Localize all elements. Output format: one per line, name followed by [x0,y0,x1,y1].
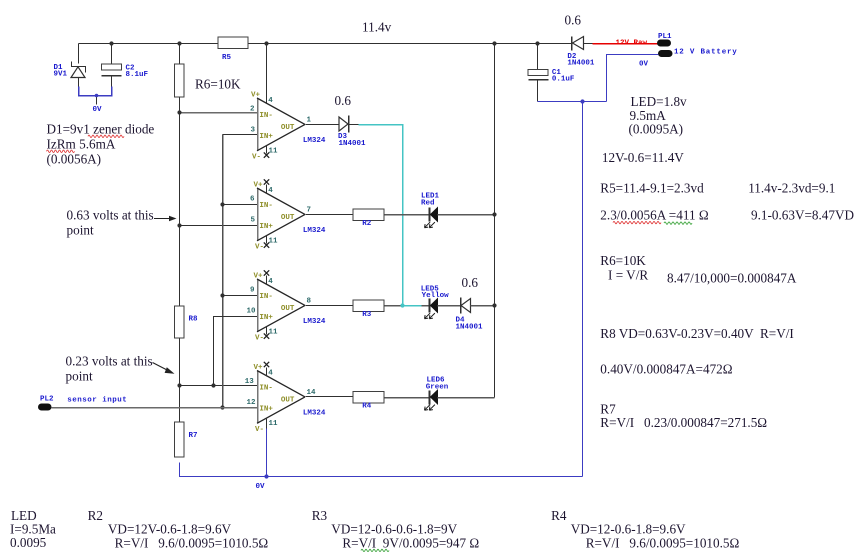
wire: U4 V- pin 11 to 0V (blue) [264,418,268,479]
svg-text:R4: R4 [362,402,372,410]
svg-text:LM324: LM324 [303,410,326,418]
ground stub 0V (top-left) [95,94,99,105]
wire: D4 to LED bus [471,303,497,307]
svg-text:8.1uF: 8.1uF [126,71,149,79]
svg-text:IN+: IN+ [259,223,273,231]
junction: top rail / R6 chain [177,41,181,45]
connector PL2 sensor input [38,404,52,411]
svg-text:0.23 volts at this: 0.23 volts at this [66,354,153,369]
svg-text:V-: V- [255,243,264,251]
svg-text:11: 11 [269,328,279,336]
no-connect X on U1 V- pin 11 [264,146,269,158]
wire: R3 to LED5 [385,305,430,307]
wire: U3 output stub [306,305,354,307]
wire: 0V blue bottom bus [180,463,583,477]
svg-text:IN-: IN- [259,293,273,301]
svg-text:PL2: PL2 [40,396,54,404]
resistor R7 (vertical) [175,422,185,457]
zener diode D1 9V1 [71,44,86,87]
svg-text:IN+: IN+ [259,406,273,414]
wire: U2 output stub [306,214,354,216]
svg-text:7: 7 [307,206,312,214]
svg-text:12: 12 [247,399,257,407]
junction: blue 0V net [580,99,584,103]
junction: top rail / C2 [109,41,113,45]
capacitor C1 0.1uF [528,44,549,102]
svg-text:I = V/R: I = V/R [608,268,648,283]
wire: cyan net tail into LED5 anode [400,303,421,307]
svg-text:OUT: OUT [281,397,295,405]
svg-text:LED=1.8v: LED=1.8v [631,94,688,109]
resistor R2 (horizontal) [353,209,384,221]
svg-text:OUT: OUT [281,124,295,132]
wire: LED5 to D4 [438,305,461,307]
label D4 1N4001 [456,317,484,332]
wire: sensor bus vertical (x=222.5) [222,135,224,408]
svg-text:R8 VD=0.63V-0.23V=0.40V R=V/I: R8 VD=0.63V-0.23V=0.40V R=V/I [600,326,794,341]
op-amp U1B LM324 (#2) [257,188,305,241]
svg-text:4: 4 [268,370,273,378]
junction: top rail / C1 [535,41,539,45]
LED LED6 Green [425,390,438,410]
svg-text:1N4001: 1N4001 [567,60,595,68]
U4 port labels [254,364,295,434]
no-connect X on U3 V- pin 11 [264,327,269,339]
label LED1 Red [421,193,440,208]
svg-text:0.6: 0.6 [462,275,479,290]
svg-text:R2: R2 [362,220,372,228]
U1 pin numbers [250,97,312,155]
no-connect X on U4 V+ pin 4 [264,362,269,377]
svg-text:0V: 0V [639,61,649,69]
svg-text:sensor input: sensor input [67,397,127,405]
resistor R3 (horizontal) [353,300,384,312]
svg-text:Yellow: Yellow [422,292,450,300]
wire: 0.63V node to U2 pin5 IN+ [177,223,257,227]
wire: U3 pin10 IN+ link (x=213) [214,317,258,386]
svg-text:OUT: OUT [281,305,295,313]
svg-text:9V1: 9V1 [54,71,68,79]
svg-text:D1=9v1 zener diode: D1=9v1 zener diode [47,122,155,137]
wire: divider to U1 pin2 IN- [177,110,257,114]
U2 port labels [254,182,295,252]
svg-text:R5: R5 [222,54,232,62]
svg-text:point: point [67,223,94,238]
svg-text:R3: R3 [312,508,328,523]
svg-text:5: 5 [251,217,256,225]
U3 pin numbers [247,278,312,336]
svg-text:PL1: PL1 [658,33,672,41]
svg-text:LM324: LM324 [303,227,326,235]
svg-text:LM324: LM324 [303,137,326,145]
svg-text:12 V Battery: 12 V Battery [674,49,738,57]
svg-text:R2: R2 [88,508,103,523]
wire: R4 to LED6 [385,397,430,399]
svg-text:LM324: LM324 [303,318,326,326]
annotation arrow (0.63 volts) [154,216,177,221]
svg-text:VD=12V-0.6-1.8=9.6V: VD=12V-0.6-1.8=9.6V [108,522,232,537]
LED LED1 Red [425,208,438,228]
op-amp U1C LM324 (#3) [257,279,305,332]
no-connect X on U2 V- pin 11 [264,236,269,248]
annotation arrow (0.23 volts) [153,363,175,374]
svg-text:IN-: IN- [259,112,273,120]
U2 pin numbers [250,187,311,245]
label C2 8.1uF [126,65,149,80]
label D1 9V1 [54,64,68,79]
resistor R8 (vertical) [175,306,185,338]
svg-text:9.1-0.63V=8.47VD: 9.1-0.63V=8.47VD [751,208,854,223]
U4 pin numbers [245,370,316,428]
svg-text:R7: R7 [189,432,198,440]
svg-text:Red: Red [421,200,435,208]
U1 port labels [251,92,295,162]
svg-text:10: 10 [247,308,257,316]
wire: 0V blue net from PL1 pin2 [538,55,659,102]
svg-text:IN-: IN- [259,385,273,393]
label LED6 Green [426,377,449,392]
op-amp U1A LM324 (#1) [257,98,305,151]
svg-text:V+: V+ [254,273,264,281]
connector PL1 pin 2 [658,50,673,57]
svg-text:OUT: OUT [281,214,295,222]
svg-text:0V: 0V [256,483,266,491]
svg-text:V-: V- [255,334,264,342]
svg-text:1N4001: 1N4001 [339,140,367,148]
svg-text:V-: V- [255,426,264,434]
U3 port labels [254,273,295,343]
svg-text:R=V/I 9.6/0.0095=1010.5Ω: R=V/I 9.6/0.0095=1010.5Ω [586,536,740,551]
svg-text:R6=10K: R6=10K [195,77,241,92]
svg-text:R=V/I 9.6/0.0095=1010.5Ω: R=V/I 9.6/0.0095=1010.5Ω [115,536,269,551]
diode D2 1N4001 [572,37,584,51]
svg-text:R=V/I 0.23/0.000847=271.5Ω: R=V/I 0.23/0.000847=271.5Ω [600,415,767,430]
svg-text:0.6: 0.6 [565,13,582,28]
svg-text:11.4v: 11.4v [362,20,392,35]
svg-text:VD=12-0.6-1.8=9.6V: VD=12-0.6-1.8=9.6V [571,522,686,537]
svg-text:0.6: 0.6 [335,93,352,108]
no-connect X on U2 V+ pin 4 [264,179,269,193]
svg-text:1: 1 [307,116,312,124]
label C1 0.1uF [552,69,575,84]
svg-text:9: 9 [250,287,255,295]
wire: 12V Raw red segment to PL1 [593,43,658,45]
diode D3 1N4001 [339,116,359,133]
svg-text:12V Raw: 12V Raw [616,40,648,48]
svg-text:R=V/I 9V/0.0095=947 Ω: R=V/I 9V/0.0095=947 Ω [342,536,479,551]
svg-text:11: 11 [269,237,279,245]
svg-text:8: 8 [307,297,312,305]
diode D4 1N4001 [461,298,471,314]
wire: 0.23V node to U4 pin13 IN- [177,383,257,387]
svg-text:2: 2 [250,106,255,114]
junction: top rail / U1 V+ [264,41,268,45]
connector PL1 pin 1 [657,40,671,47]
svg-text:R6=10K: R6=10K [600,253,646,268]
svg-text:IN+: IN+ [259,133,273,141]
wire: 11.4v top supply rail [79,43,593,45]
wire: R2 to LED1 [385,214,430,216]
LED LED5 Yellow [425,299,438,319]
svg-text:2.3/0.0056A =411 Ω: 2.3/0.0056A =411 Ω [600,208,709,223]
capacitor C2 0.1uF [102,44,122,87]
wire: LED cathode bus (x=494) [494,44,496,398]
wire: sensor bus to U1 pin3 IN+ [223,134,258,136]
svg-text:R8: R8 [189,316,199,324]
resistor R5 (on top rail) [218,37,248,49]
label LED5 Yellow [421,286,449,301]
wire: sensor bus to U3 pin9 IN- [220,293,257,297]
svg-text:11: 11 [269,147,279,155]
wire: voltage divider chain (x=179) [179,44,181,458]
label D3 1N4001 [338,133,366,148]
svg-text:4: 4 [268,278,273,286]
label D2 1N4001 [567,53,595,68]
wire: sensor bus to U2 pin6 IN- [220,202,257,206]
svg-text:R3: R3 [362,311,372,319]
svg-text:V+: V+ [251,92,261,100]
wire: U1 output stub [306,124,340,126]
svg-text:(0.0095A): (0.0095A) [629,122,684,137]
wire: top rail to U1 V+ pin4 [266,44,268,104]
svg-text:3: 3 [251,127,256,135]
wire: cyan net D3 cathode down to LED5 row [359,125,403,306]
wire: sensor input to U4 pin12 IN+ [52,407,258,409]
svg-text:0.63 volts at this: 0.63 volts at this [67,208,154,223]
svg-text:0V: 0V [93,106,103,114]
svg-text:point: point [66,369,93,384]
svg-text:11: 11 [269,420,279,428]
svg-text:13: 13 [245,378,255,386]
spellcheck squiggles [47,135,693,552]
svg-text:R5=11.4-9.1=2.3vd: R5=11.4-9.1=2.3vd [600,180,704,195]
resistor R4 (horizontal) [353,391,384,403]
wire: U4 output stub [306,396,354,398]
svg-text:IN+: IN+ [259,314,273,322]
no-connect X on U3 V+ pin 4 [264,270,269,284]
wire: 0V blue vertical (x=582) [582,102,584,477]
svg-text:0.0095: 0.0095 [10,535,47,550]
svg-text:R4: R4 [551,508,567,523]
svg-text:1N4001: 1N4001 [456,324,484,332]
junction: sensor bus / sensor input wire [220,405,224,409]
wire: 0V return under D1/C2 (blue) [79,87,112,96]
svg-text:4: 4 [268,187,273,195]
svg-text:6: 6 [250,196,255,204]
svg-text:IzRm 5.6mA: IzRm 5.6mA [47,137,116,152]
svg-text:Green: Green [426,384,449,392]
resistor R6 (vertical, 10K) [175,64,185,97]
svg-text:4: 4 [268,97,273,105]
svg-text:V-: V- [252,153,261,161]
svg-text:V+: V+ [254,364,264,372]
svg-text:IN-: IN- [259,202,273,210]
svg-text:V+: V+ [254,182,264,190]
svg-text:0.1uF: 0.1uF [552,76,575,84]
svg-text:(0.0056A): (0.0056A) [47,152,102,167]
wire: LED1 to LED bus [438,212,497,216]
svg-text:14: 14 [307,389,317,397]
svg-text:11.4v-2.3vd=9.1: 11.4v-2.3vd=9.1 [748,180,835,195]
op-amp U1D LM324 (#4) [257,371,305,424]
wire: LED6 to LED bus [438,397,495,399]
junction: top rail / LED bus [492,41,496,45]
svg-text:8.47/10,000=0.000847A: 8.47/10,000=0.000847A [667,271,797,286]
svg-text:12V-0.6=11.4V: 12V-0.6=11.4V [602,150,684,165]
svg-text:0.40V/0.000847A=472Ω: 0.40V/0.000847A=472Ω [600,362,732,377]
svg-text:VD=12-0.6-0.6-1.8=9V: VD=12-0.6-0.6-1.8=9V [331,522,457,537]
